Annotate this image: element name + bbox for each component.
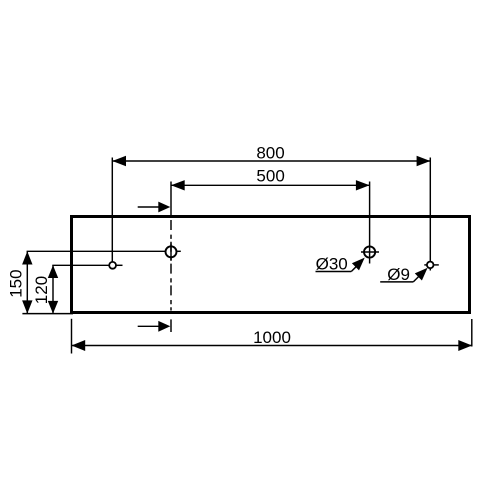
svg-text:1000: 1000: [253, 328, 291, 347]
svg-text:150: 150: [6, 269, 25, 297]
svg-text:800: 800: [256, 143, 284, 162]
svg-text:500: 500: [256, 166, 284, 185]
svg-text:Ø30: Ø30: [316, 254, 348, 273]
svg-text:120: 120: [32, 276, 51, 304]
